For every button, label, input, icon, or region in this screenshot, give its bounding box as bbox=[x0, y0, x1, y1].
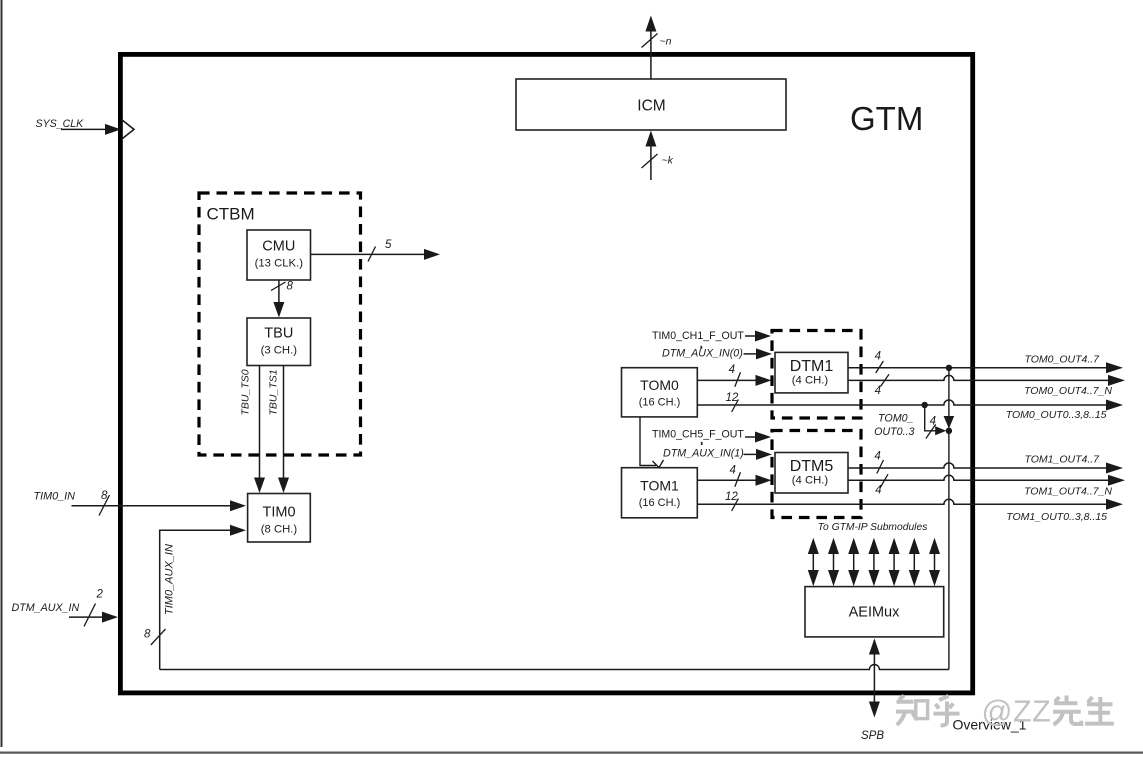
block TOM0 bbox=[622, 368, 698, 417]
svg-text:AEIMux: AEIMux bbox=[849, 605, 901, 621]
glyph xian bbox=[1055, 697, 1059, 702]
wire TIM0 aux input bbox=[160, 530, 231, 669]
wire DTM_AUX_IN(1) bbox=[744, 453, 758, 455]
svg-text:4: 4 bbox=[875, 350, 881, 362]
svg-text:DTM5: DTM5 bbox=[790, 458, 834, 475]
slash 12 bbox=[732, 499, 739, 512]
svg-text:DTM_AUX_IN: DTM_AUX_IN bbox=[12, 602, 80, 614]
wire TIM0_CH5_F_OUT bbox=[745, 436, 756, 438]
CTBM dashed box bbox=[199, 193, 361, 455]
svg-text:ICM: ICM bbox=[637, 98, 665, 115]
svg-text:8: 8 bbox=[101, 490, 108, 502]
svg-text:DTM_AUX_IN(0): DTM_AUX_IN(0) bbox=[662, 348, 743, 360]
wire TOM1 4 to DTM5 bbox=[697, 479, 756, 481]
block DTM1 bbox=[775, 352, 848, 393]
wire CMU clocks out bbox=[311, 253, 426, 255]
svg-text:To GTM-IP Submodules: To GTM-IP Submodules bbox=[818, 522, 928, 533]
wire TOM0 to TOM1 bbox=[640, 417, 656, 466]
svg-text:4: 4 bbox=[874, 450, 880, 462]
wire DTM5 out upper bbox=[848, 463, 1107, 468]
svg-text:(3 CH.): (3 CH.) bbox=[261, 345, 298, 357]
slash 4 bbox=[735, 372, 741, 387]
arrow up ~k bbox=[645, 131, 656, 147]
wire CMU to TBU bbox=[278, 280, 280, 303]
slash 4 bbox=[877, 460, 884, 474]
svg-text:2: 2 bbox=[96, 589, 104, 601]
svg-text:TOM0_OUT0..3,8..15: TOM0_OUT0..3,8..15 bbox=[1006, 409, 1107, 421]
wire SPB bbox=[873, 640, 875, 714]
slash 5 bbox=[368, 247, 376, 262]
svg-text:TIM0_AUX_IN: TIM0_AUX_IN bbox=[164, 544, 176, 615]
junction dot line3 bbox=[922, 402, 928, 408]
slash ~n bbox=[642, 34, 658, 48]
slash 4 bbox=[876, 361, 884, 373]
svg-text:8: 8 bbox=[287, 281, 294, 293]
wire TIM0_IN bbox=[72, 505, 232, 507]
stray tick (1) bbox=[701, 442, 703, 445]
svg-text:TOM1_OUT4..7: TOM1_OUT4..7 bbox=[1025, 454, 1101, 466]
watermark zhihu bbox=[896, 696, 1114, 726]
arrow SYS_CLK bbox=[105, 124, 121, 135]
GTM module frame bbox=[120, 54, 972, 693]
svg-text:~k: ~k bbox=[662, 155, 674, 167]
glyph hu bbox=[939, 696, 949, 700]
slash 4 branch bbox=[926, 424, 936, 438]
svg-text:4: 4 bbox=[729, 464, 735, 476]
wire DTM5 out lower bbox=[848, 475, 1109, 480]
wire TIM0_CH1_F_OUT bbox=[745, 335, 756, 337]
left page border line bbox=[1, 0, 3, 747]
svg-text:(4 CH.): (4 CH.) bbox=[792, 375, 829, 387]
svg-text:CMU: CMU bbox=[262, 239, 295, 255]
slash 4 bbox=[881, 374, 889, 386]
wire TBU_TS0 bbox=[259, 366, 261, 479]
svg-text:8: 8 bbox=[144, 629, 151, 641]
svg-text:(16 CH.): (16 CH.) bbox=[639, 497, 681, 509]
wire DTM_AUX_IN bbox=[69, 616, 103, 618]
junction dot feedback bbox=[946, 428, 952, 434]
arrow SPB down bbox=[869, 702, 880, 718]
wire TOM0_OUT0..3 branch bbox=[925, 405, 937, 431]
svg-text:SYS_CLK: SYS_CLK bbox=[36, 118, 85, 130]
slash 8 bbox=[99, 495, 110, 516]
wire DTM1 out lower bbox=[848, 375, 1109, 380]
wire TOM1 12 out bbox=[697, 499, 1107, 504]
block TOM1 bbox=[622, 468, 698, 518]
glyph sheng bbox=[1088, 697, 1093, 702]
arrow clocks out bbox=[424, 249, 440, 260]
DTM5 dashed box bbox=[772, 431, 861, 518]
svg-text:12: 12 bbox=[725, 491, 738, 503]
svg-text:TIM0_IN: TIM0_IN bbox=[34, 491, 76, 503]
wire ICM up bbox=[650, 31, 652, 79]
svg-text:4: 4 bbox=[729, 364, 735, 376]
svg-text:TBU_TS1: TBU_TS1 bbox=[268, 369, 280, 415]
slash 4 bbox=[880, 474, 888, 488]
wire DTM_AUX_IN(0) bbox=[744, 353, 758, 355]
bottom page rule bbox=[0, 751, 1143, 753]
svg-text:TOM1: TOM1 bbox=[640, 478, 679, 494]
svg-text:TIM0: TIM0 bbox=[262, 505, 295, 521]
block TBU bbox=[247, 318, 311, 366]
arrow into TBU bbox=[273, 302, 284, 318]
slash 8 bbox=[271, 282, 286, 291]
slash ~k bbox=[642, 154, 658, 168]
wire TOM0 4 to DTM1 bbox=[697, 379, 756, 381]
wire TOM0 12 out bbox=[697, 400, 1107, 405]
svg-text:4: 4 bbox=[930, 415, 936, 427]
svg-text:(16 CH.): (16 CH.) bbox=[639, 397, 681, 409]
svg-text:TIM0_CH1_F_OUT: TIM0_CH1_F_OUT bbox=[652, 330, 744, 342]
svg-text:TOM1_OUT4..7_N: TOM1_OUT4..7_N bbox=[1024, 486, 1112, 498]
svg-text:4: 4 bbox=[875, 385, 881, 397]
block AEIMux bbox=[805, 587, 944, 637]
svg-text:TBU_TS0: TBU_TS0 bbox=[240, 369, 252, 415]
svg-text:CTBM: CTBM bbox=[207, 205, 255, 224]
wire TBU_TS1 bbox=[283, 366, 285, 479]
svg-text:(8 CH.): (8 CH.) bbox=[261, 524, 298, 536]
stray tick (0) bbox=[700, 346, 702, 349]
svg-text:DTM_AUX_IN(1): DTM_AUX_IN(1) bbox=[663, 448, 744, 460]
wire DTM1 out upper bbox=[848, 367, 1107, 369]
slash 2 bbox=[84, 604, 96, 627]
svg-text:~n: ~n bbox=[660, 36, 672, 48]
svg-text:TOM1_OUT0..3,8..15: TOM1_OUT0..3,8..15 bbox=[1006, 511, 1107, 523]
slash 8 aux bbox=[151, 629, 166, 645]
svg-text:(4 CH.): (4 CH.) bbox=[792, 475, 829, 487]
slash 12 bbox=[732, 400, 739, 413]
wire feedback vertical bbox=[948, 368, 950, 670]
block ICM bbox=[516, 79, 786, 130]
svg-text:5: 5 bbox=[385, 239, 392, 251]
block DTM5 bbox=[775, 453, 848, 494]
glyph zhi bbox=[899, 696, 904, 700]
svg-text:SPB: SPB bbox=[861, 730, 884, 742]
svg-text:TOM0_: TOM0_ bbox=[878, 413, 913, 425]
svg-text:4: 4 bbox=[875, 485, 881, 497]
svg-text:TOM0: TOM0 bbox=[640, 377, 679, 393]
block TIM0 bbox=[248, 494, 311, 543]
svg-text:TOM0_OUT4..7: TOM0_OUT4..7 bbox=[1025, 354, 1101, 366]
arrow SPB up bbox=[869, 639, 880, 655]
svg-text:GTM: GTM bbox=[850, 100, 923, 137]
svg-text:OUT0..3: OUT0..3 bbox=[874, 426, 914, 438]
chevron clock input bbox=[122, 120, 135, 140]
AEI double arrows bbox=[808, 538, 940, 587]
svg-text:TBU: TBU bbox=[264, 326, 293, 342]
svg-text:12: 12 bbox=[726, 392, 739, 404]
arrow up ~n bbox=[645, 16, 656, 32]
svg-text:DTM1: DTM1 bbox=[790, 358, 834, 375]
wire ICM bottom bbox=[650, 146, 652, 180]
junction dot line1 bbox=[946, 365, 952, 371]
svg-text:TIM0_CH5_F_OUT: TIM0_CH5_F_OUT bbox=[652, 429, 744, 441]
wire SYS_CLK bbox=[61, 128, 107, 130]
DTM1 dashed box bbox=[772, 331, 861, 419]
svg-text:(13 CLK.): (13 CLK.) bbox=[255, 258, 304, 270]
svg-text:TOM0_OUT4..7_N: TOM0_OUT4..7_N bbox=[1024, 385, 1112, 397]
arrow down feedback bbox=[944, 416, 955, 429]
slash 4 bbox=[735, 472, 741, 487]
wire return line bbox=[160, 665, 949, 670]
block CMU bbox=[247, 230, 311, 280]
svg-text:@ZZ: @ZZ bbox=[982, 695, 1052, 729]
